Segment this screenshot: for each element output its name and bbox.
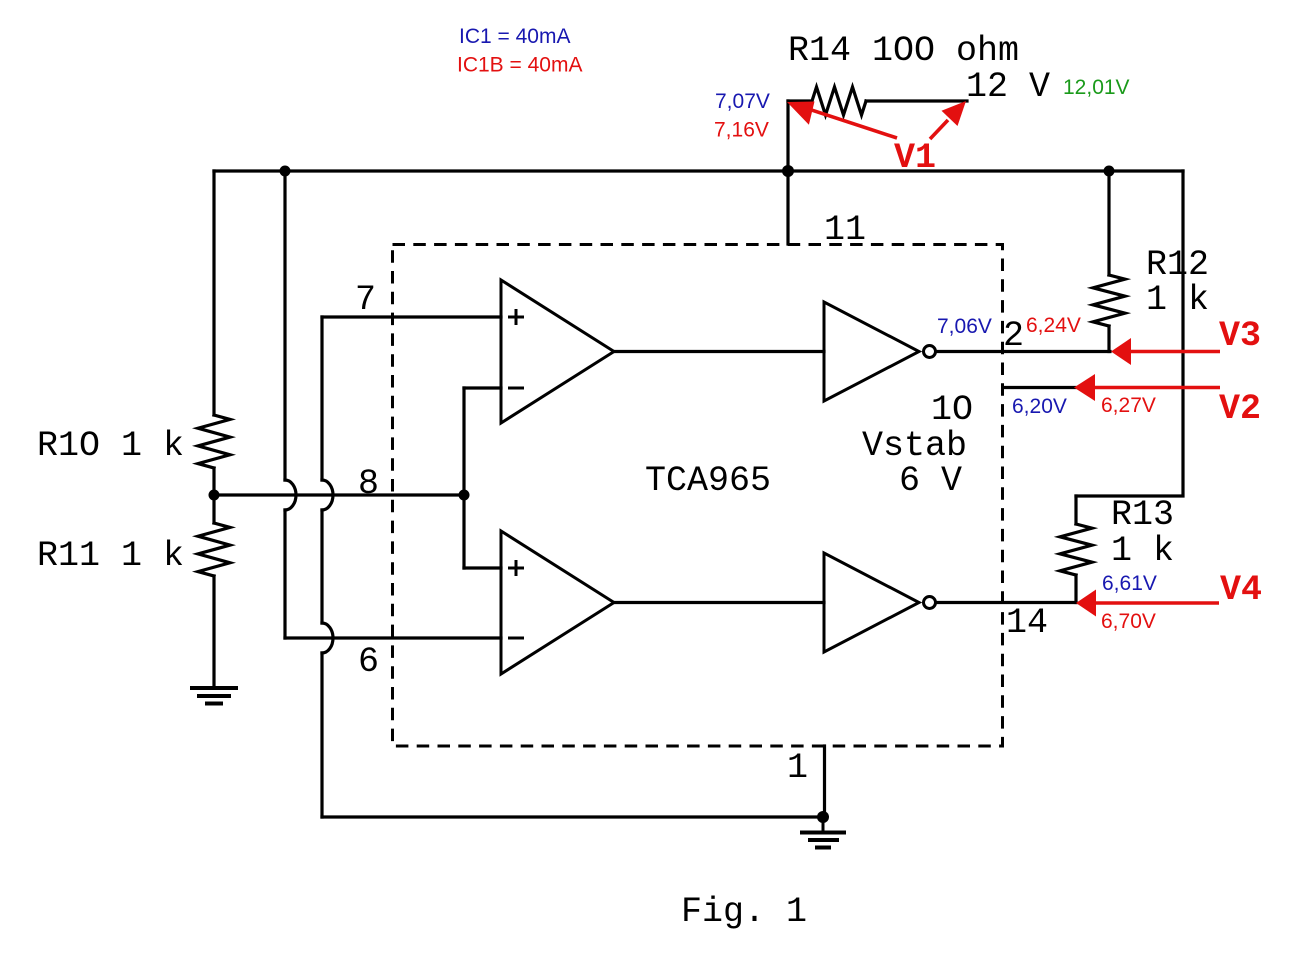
wire hop of x=285 over node-8 wire <box>285 480 296 510</box>
svg-text:6 V: 6 V <box>899 461 962 501</box>
wire R14 right lead to 12V <box>866 99 967 102</box>
svg-text:1: 1 <box>787 748 808 788</box>
svg-text:1O: 1O <box>931 390 973 430</box>
svg-text:IC1 = 40mA: IC1 = 40mA <box>459 25 570 48</box>
inverter A output bubble <box>924 346 936 358</box>
wire vertical pin7-to-ground (x=322) <box>320 317 323 817</box>
node junction on rail at pin 11 <box>782 165 794 177</box>
svg-text:6,61V: 6,61V <box>1102 572 1157 595</box>
resistor R12 <box>1093 275 1125 326</box>
svg-text:V3: V3 <box>1219 316 1261 356</box>
V4 arrowhead <box>1076 590 1096 617</box>
wire pin 2 output <box>936 350 1110 353</box>
wire left branch top lead (rail to R10) <box>212 171 215 415</box>
V2 arrow line <box>1091 386 1220 390</box>
wire U1B output to inverter <box>614 601 824 604</box>
svg-text:1 k: 1 k <box>1146 280 1209 320</box>
wire vertical from rail dot to pin 6 (x=285) <box>283 171 286 638</box>
wire ground bus bottom <box>322 815 823 818</box>
op-amp U1B (lower comparator) <box>501 531 614 674</box>
V1 arrowhead right <box>942 101 967 126</box>
wire pin 1 vertical <box>823 746 826 817</box>
U1B plus mark <box>508 560 524 576</box>
svg-text:R1O 1 k: R1O 1 k <box>37 426 184 466</box>
svg-text:6,27V: 6,27V <box>1101 394 1156 417</box>
svg-text:R11 1 k: R11 1 k <box>37 536 184 576</box>
U1A minus mark <box>508 387 524 390</box>
wire to U1A inverting input <box>464 386 501 389</box>
resistor R10 <box>198 415 230 468</box>
wire R11 to ground <box>212 576 215 686</box>
V3 arrowhead <box>1111 338 1131 365</box>
svg-text:7: 7 <box>355 280 376 320</box>
svg-text:12 V: 12 V <box>966 67 1050 107</box>
wire pin 6 horizontal <box>285 636 501 639</box>
svg-text:14: 14 <box>1006 603 1048 643</box>
node junction on rail at x=285 <box>280 166 291 177</box>
wire R12 top lead from rail <box>1107 171 1110 275</box>
inverter B triangle <box>824 553 919 652</box>
svg-text:R14 1OO ohm: R14 1OO ohm <box>788 31 1019 71</box>
IC boundary box TCA965 (dashed) <box>393 245 1003 747</box>
op-amp U1A (upper comparator) <box>501 280 614 423</box>
node junction on rail at R12 <box>1104 166 1115 177</box>
svg-text:V2: V2 <box>1219 389 1261 429</box>
wire pin 10 stub <box>1003 386 1075 389</box>
svg-text:12,01V: 12,01V <box>1063 76 1130 99</box>
wire pin 14 output <box>936 601 1076 604</box>
V1 arrowhead left <box>787 102 815 125</box>
svg-text:R12: R12 <box>1146 245 1209 285</box>
svg-text:R13: R13 <box>1111 495 1174 535</box>
node junction R10/R11 divider <box>209 490 220 501</box>
svg-text:6,20V: 6,20V <box>1012 395 1067 418</box>
U1A plus mark <box>508 309 524 325</box>
resistor R11 <box>198 523 230 576</box>
svg-text:Fig. 1: Fig. 1 <box>681 892 807 932</box>
wire pin 11 vertical <box>786 101 789 244</box>
resistor R14 <box>812 87 866 115</box>
svg-text:11: 11 <box>824 210 866 250</box>
wire R12 bottom lead <box>1107 326 1110 352</box>
wire top +12V rail <box>214 169 1183 172</box>
wire pin 7 horizontal <box>322 315 501 318</box>
svg-text:6: 6 <box>358 642 379 682</box>
svg-text:7,16V: 7,16V <box>714 119 769 142</box>
svg-text:1 k: 1 k <box>1111 531 1174 571</box>
svg-text:Vstab: Vstab <box>862 426 967 466</box>
svg-text:8: 8 <box>358 464 379 504</box>
V3 arrow line <box>1128 350 1220 354</box>
svg-text:6,70V: 6,70V <box>1101 610 1156 633</box>
U1B minus mark <box>508 637 524 640</box>
wire R14 left lead <box>788 99 812 102</box>
wire U1A output to inverter <box>614 350 824 353</box>
inverter B output bubble <box>924 597 936 609</box>
wire hop of x=322 over node-8 wire <box>322 480 333 510</box>
wire to U1B non-inverting input <box>464 566 501 569</box>
ground symbol center (pin 1) <box>822 817 825 831</box>
V2 arrowhead <box>1074 374 1095 401</box>
wire R13 bottom lead <box>1074 575 1077 603</box>
node junction 8 at op-amp inputs <box>459 490 470 501</box>
svg-text:V1: V1 <box>894 138 936 178</box>
svg-text:2: 2 <box>1003 316 1024 356</box>
wire hop of x=322 over pin-6 wire <box>322 623 333 653</box>
svg-text:V4: V4 <box>1220 570 1262 610</box>
V1 arrow line left <box>806 108 897 138</box>
svg-text:IC1B = 40mA: IC1B = 40mA <box>457 54 582 77</box>
svg-text:7,06V: 7,06V <box>937 315 992 338</box>
inverter A triangle <box>824 302 919 401</box>
wire R10 to node <box>212 468 215 495</box>
svg-text:6,24V: 6,24V <box>1026 314 1081 337</box>
wire node to R11 <box>212 495 215 523</box>
wire R13 top lead <box>1074 496 1077 524</box>
svg-text:TCA965: TCA965 <box>645 461 771 501</box>
resistor R13 <box>1060 524 1092 575</box>
V1 arrow line right <box>930 120 948 139</box>
V4 arrow line <box>1093 601 1219 605</box>
wire node 8 vertical to op-amp inputs <box>462 388 465 568</box>
svg-text:7,07V: 7,07V <box>715 90 770 113</box>
wire right branch vertical (x=1183) <box>1076 171 1183 496</box>
node junction ground bus <box>817 811 829 823</box>
wire node 8 horizontal <box>214 493 464 496</box>
ground symbol left (R11) <box>190 688 238 704</box>
